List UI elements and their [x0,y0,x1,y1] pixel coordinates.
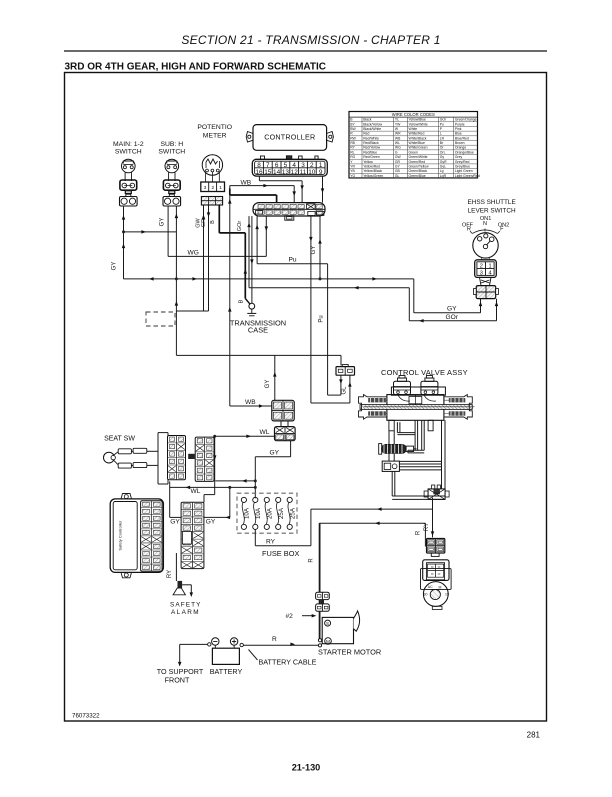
svg-text:3RD OR 4TH GEAR, HIGH AND FORW: 3RD OR 4TH GEAR, HIGH AND FORWARD SCHEMA… [65,62,327,73]
svg-text:Red/Black: Red/Black [363,141,379,145]
svg-text:M: M [439,586,442,590]
svg-text:Orange: Orange [455,146,466,150]
svg-text:White: White [409,127,418,131]
svg-text:Red/White: Red/White [363,136,379,140]
svg-text:GL: GL [395,174,400,178]
svg-text:Pink: Pink [455,127,462,131]
svg-text:Grey: Grey [455,155,463,159]
svg-text:CONTROL VALVE ASSY: CONTROL VALVE ASSY [381,368,468,377]
svg-text:GL: GL [341,386,347,395]
svg-text:Green/Orange: Green/Orange [455,118,477,122]
svg-text:Pu: Pu [319,315,325,322]
svg-text:SWITCH: SWITCH [158,149,185,156]
svg-text:Pu: Pu [440,122,444,126]
svg-text:25A: 25A [278,507,285,519]
svg-text:GyL: GyL [440,164,446,168]
svg-text:Green/Black: Green/Black [409,169,428,173]
svg-text:METER: METER [203,133,227,140]
svg-text:STARTER MOTOR: STARTER MOTOR [318,648,381,657]
svg-text:19: 19 [445,593,449,597]
svg-text:R: R [309,558,315,563]
svg-text:RL: RL [350,150,354,154]
svg-text:POTENTIO: POTENTIO [197,124,232,131]
svg-text:B: B [238,299,244,303]
svg-text:Brown: Brown [455,141,465,145]
svg-text:Lg: Lg [440,169,444,173]
svg-text:Red/Yellow: Red/Yellow [363,146,380,150]
svg-text:Green/White: Green/White [409,155,428,159]
svg-text:1: 1 [488,263,491,269]
svg-text:WG: WG [188,249,199,256]
svg-text:RW: RW [350,136,356,140]
svg-text:RY: RY [350,146,355,150]
svg-text:WL: WL [395,141,400,145]
svg-text:White/Black: White/Black [409,136,427,140]
svg-text:LR: LR [440,136,445,140]
svg-text:LEVER SWITCH: LEVER SWITCH [468,208,516,215]
svg-text:GY: GY [395,164,401,168]
svg-text:10A: 10A [244,507,251,519]
svg-text:Purple: Purple [455,122,465,126]
svg-text:Black/White: Black/White [363,127,381,131]
svg-text:ALARM: ALARM [171,609,200,616]
svg-text:GY: GY [112,262,118,271]
svg-text:GY: GY [447,306,457,313]
svg-text:TO SUPPORT: TO SUPPORT [157,667,204,676]
svg-text:Green/Yellow: Green/Yellow [409,164,430,168]
svg-text:13: 13 [282,169,290,176]
svg-text:Pu: Pu [289,257,297,264]
svg-text:Grey/Blue: Grey/Blue [455,164,470,168]
svg-text:BATTERY CABLE: BATTERY CABLE [259,658,317,667]
svg-text:S: S [326,621,329,626]
svg-text:Green/Blue: Green/Blue [409,174,426,178]
svg-text:Yellow: Yellow [363,160,373,164]
svg-text:GY: GY [206,519,216,526]
svg-text:15: 15 [264,169,272,176]
svg-text:12: 12 [291,169,299,176]
svg-text:WIRE COLOR CODES: WIRE COLOR CODES [392,112,435,117]
svg-text:R: R [272,636,277,643]
svg-text:GR: GR [201,219,207,227]
svg-text:Gy: Gy [440,155,445,159]
svg-text:FRONT: FRONT [165,676,190,685]
svg-text:Red/Blue: Red/Blue [363,150,377,154]
svg-text:GY: GY [270,450,280,457]
svg-text:GY: GY [170,519,180,526]
svg-text:WB: WB [241,179,252,186]
svg-text:Light Green: Light Green [455,169,473,173]
svg-text:AC: AC [428,585,433,589]
svg-text:SAFETY: SAFETY [170,602,201,609]
svg-text:76073322: 76073322 [72,713,100,720]
svg-text:21-130: 21-130 [292,763,321,773]
svg-text:GR: GR [395,160,401,164]
svg-text:YL: YL [395,118,399,122]
svg-text:YB: YB [350,169,355,173]
svg-text:WR: WR [395,132,401,136]
svg-text:YR: YR [350,164,355,168]
svg-text:1: 1 [219,185,222,191]
svg-text:9: 9 [319,169,323,176]
svg-text:LgR: LgR [440,174,447,178]
svg-text:R: R [416,530,422,535]
svg-text:SWITCH: SWITCH [115,149,142,156]
svg-text:10: 10 [308,169,316,176]
svg-text:M: M [326,639,330,645]
svg-text:Orange/Blue: Orange/Blue [455,150,474,154]
svg-text:WL: WL [260,429,270,436]
svg-text:WG: WG [395,146,401,150]
svg-text:GY: GY [265,380,271,389]
svg-text:CASE: CASE [248,326,268,335]
svg-text:WB: WB [395,136,401,140]
svg-text:MAIN: 1-2: MAIN: 1-2 [113,141,144,148]
svg-text:#2: #2 [286,613,294,620]
svg-text:16: 16 [255,169,263,176]
svg-text:Black: Black [363,118,372,122]
svg-text:30: 30 [424,593,428,597]
svg-text:Red/Green: Red/Green [363,155,380,159]
svg-text:BY: BY [350,122,355,126]
svg-text:GyR: GyR [440,160,447,164]
svg-text:FUSE BOX: FUSE BOX [262,549,299,558]
svg-text:Yellow/Green: Yellow/Green [363,174,383,178]
svg-text:Yellow/Red: Yellow/Red [363,164,380,168]
svg-text:Green/Red: Green/Red [409,160,426,164]
svg-text:G: G [395,150,398,154]
svg-text:GW: GW [395,155,402,159]
svg-text:WB: WB [245,399,256,406]
svg-text:Red: Red [363,132,369,136]
svg-text:BW: BW [350,127,356,131]
svg-text:White/Green: White/Green [409,146,428,150]
svg-text:20A: 20A [266,507,273,519]
svg-text:OrL: OrL [440,150,446,154]
svg-text:White/Blue: White/Blue [409,141,426,145]
svg-text:10A: 10A [255,507,262,519]
svg-text:RB: RB [350,141,355,145]
svg-text:Blue: Blue [455,132,462,136]
svg-text:WL: WL [191,488,201,495]
svg-text:GB: GB [395,169,401,173]
svg-text:GY: GY [311,246,317,255]
svg-text:14: 14 [273,169,281,176]
svg-text:11: 11 [300,169,307,176]
svg-text:3: 3 [204,185,207,191]
svg-text:Green: Green [409,150,419,154]
svg-text:CONTROLLER: CONTROLLER [264,132,315,141]
svg-text:RY: RY [167,570,173,578]
svg-text:YW: YW [395,122,401,126]
svg-text:RY: RY [266,539,276,546]
svg-text:Yellow/Black: Yellow/Black [363,169,382,173]
svg-text:Safety Controller: Safety Controller [118,520,123,550]
svg-text:Light Green/Red: Light Green/Red [455,174,480,178]
svg-text:25A: 25A [289,507,296,519]
svg-text:Black/Yellow: Black/Yellow [363,122,382,126]
svg-text:GOr: GOr [440,118,447,122]
svg-text:281: 281 [527,731,541,740]
svg-text:F: F [500,226,504,232]
svg-text:BATTERY: BATTERY [210,667,243,676]
svg-text:Yellow/White: Yellow/White [409,122,428,126]
svg-text:N: N [483,221,487,227]
svg-text:RG: RG [350,155,355,159]
svg-text:L: L [440,132,442,136]
svg-text:Yellow/Blue: Yellow/Blue [409,118,427,122]
svg-text:YG: YG [350,174,355,178]
svg-text:GOr: GOr [237,221,243,232]
svg-text:2: 2 [480,263,483,269]
svg-text:2: 2 [211,185,214,191]
svg-text:Grey/Red: Grey/Red [455,160,470,164]
svg-text:SECTION 21 - TRANSMISSION - CH: SECTION 21 - TRANSMISSION - CHAPTER 1 [181,33,440,47]
svg-text:SUB: H: SUB: H [160,141,183,148]
svg-text:White/Red: White/Red [409,132,425,136]
svg-text:GY: GY [160,218,166,227]
svg-text:4: 4 [488,270,491,276]
svg-text:EHSS SHUTTLE: EHSS SHUTTLE [467,199,515,206]
svg-text:3: 3 [480,270,483,276]
svg-text:SEAT SW: SEAT SW [104,436,135,443]
svg-text:B: B [210,220,216,224]
svg-text:GOr: GOr [446,314,459,321]
svg-text:Blue/Red: Blue/Red [455,136,469,140]
